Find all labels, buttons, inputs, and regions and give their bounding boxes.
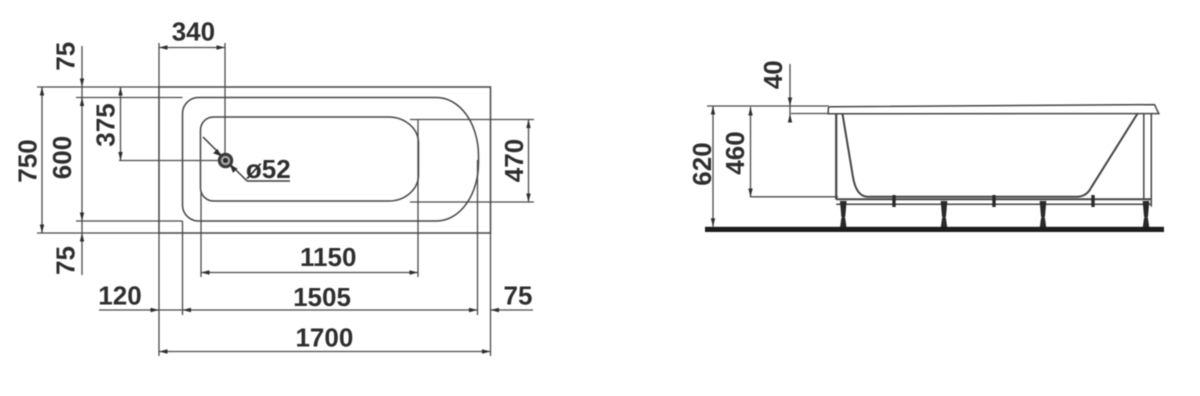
arrow 1505 left (183, 308, 192, 312)
dim line 340 (159, 47, 225, 49)
dim line 375 (120, 87, 122, 161)
arrow 1505 right (469, 308, 478, 312)
foot 2 (941, 202, 947, 217)
ext line 1505 left (182, 221, 184, 315)
svg-text:ø52: ø52 (246, 154, 291, 184)
svg-text:75: 75 (504, 281, 533, 311)
dim line 620 (712, 107, 714, 227)
arrow 40 down (788, 98, 792, 107)
arrow 1150 left (201, 270, 210, 274)
ext line 1150 right (417, 120, 419, 277)
arrow 375 top (118, 87, 122, 96)
svg-text:120: 120 (98, 281, 141, 311)
rail top (836, 198, 1151, 200)
dim line 1700 (159, 351, 491, 353)
arrow 600 bottom down (80, 213, 84, 222)
ext line bottom 750 (37, 232, 159, 234)
rail bracket tick 1 (893, 196, 895, 207)
arrow 1150 right (410, 270, 419, 274)
rail bracket tick 3 (1092, 196, 1094, 207)
drain arrow upper (213, 149, 221, 157)
arrow 120 right (outside left of 159) (151, 308, 160, 312)
foot 4 (1143, 202, 1149, 217)
arrow 1700 right (482, 349, 491, 353)
ext line basin bottom (750, 196, 838, 198)
ext line 1700 right (490, 233, 492, 356)
basin interior profile (843, 114, 1138, 197)
arrow 40 up (788, 114, 792, 123)
drain arrow lower (230, 165, 238, 173)
svg-text:1150: 1150 (300, 242, 356, 272)
inner rounded rect (basin bottom) (201, 117, 419, 201)
ext line 340 right to drain (224, 43, 226, 153)
ext line top 600 (76, 97, 183, 99)
dim line 1150 (201, 272, 418, 274)
svg-text:1505: 1505 (293, 282, 351, 312)
arrow 340 left (159, 45, 168, 49)
ext line rim bottom (791, 113, 829, 115)
arrow 340 right (217, 45, 226, 49)
svg-text:470: 470 (499, 139, 529, 182)
middle rounded rect (basin opening) (183, 98, 479, 222)
apron right edge (1150, 114, 1152, 207)
ext line 1505 right (477, 160, 479, 315)
svg-text:460: 460 (720, 131, 750, 174)
ext line 470 top (410, 119, 534, 121)
floor line (705, 227, 1164, 232)
dim line 120/1505 (99, 309, 478, 311)
drain leader diagonal (203, 137, 247, 181)
arrow 750 bottom (40, 225, 44, 234)
arrow 375 bottom (118, 152, 122, 161)
dim line 75/600/75 chain (81, 46, 83, 275)
svg-text:1700: 1700 (295, 323, 353, 353)
apron left edge (835, 114, 837, 200)
ext line rim top (707, 105, 829, 107)
svg-text:600: 600 (47, 136, 77, 179)
drain circle (219, 154, 231, 166)
drain center dot (223, 158, 228, 163)
svg-text:340: 340 (172, 17, 215, 47)
dim line 750 (41, 87, 43, 233)
rim bar (elevation) (828, 105, 1159, 114)
outer rect (tub rim, plan view) (159, 87, 491, 233)
arrow 460 bottom (748, 189, 752, 198)
dim line 75 right tail (491, 309, 534, 311)
svg-text:40: 40 (758, 60, 788, 89)
arrow 75top down (80, 79, 84, 88)
svg-text:75: 75 (51, 246, 81, 275)
ext line top 750 (37, 86, 159, 88)
drain leader underline (247, 180, 290, 182)
arrow 620 top (711, 106, 715, 115)
svg-text:375: 375 (91, 103, 121, 146)
foot 1 (841, 202, 847, 217)
apron inner right edge (1143, 114, 1145, 200)
arrow 460 top (748, 107, 752, 116)
arrow 1700 left (159, 349, 168, 353)
arrow 600 top up (80, 98, 84, 107)
dim line 40 (789, 64, 791, 122)
arrow 750 top (40, 87, 44, 96)
rail bottom (836, 203, 1151, 205)
ext line 375 to drain (119, 160, 219, 162)
dim line 460 (750, 107, 752, 197)
ext line 1150 left (200, 192, 202, 277)
arrow 75right (outside right of 490.5) (491, 308, 500, 312)
ext line 1700 left (158, 233, 160, 356)
ext line 340 left (158, 43, 160, 87)
arrow 470 top (526, 120, 530, 129)
svg-text:75: 75 (51, 42, 81, 71)
foot 3 (1040, 202, 1046, 217)
ext line 470 bottom (410, 201, 534, 203)
ext line bottom 600 (76, 220, 183, 222)
arrow 470 bottom (526, 194, 530, 203)
svg-text:750: 750 (13, 139, 43, 182)
svg-text:620: 620 (687, 142, 717, 185)
dim line 470 (528, 120, 530, 203)
rail bracket tick 2 (993, 196, 995, 207)
arrow 620 bottom (711, 218, 715, 227)
arrow 75bot up (80, 233, 84, 242)
